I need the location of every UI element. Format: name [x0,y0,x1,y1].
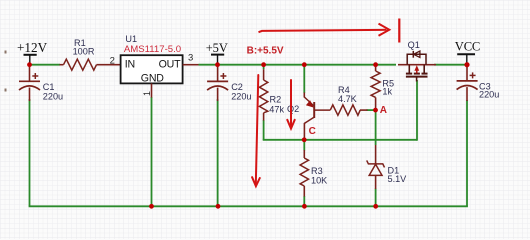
capacitor C2 [207,65,251,102]
svg-text:R2: R2 [270,95,282,105]
pin 1 (GND) [142,83,152,97]
transistor Q1 (P-MOSFET) [398,40,436,82]
pin 3 [183,52,199,64]
svg-text:Q1: Q1 [408,40,420,50]
svg-text:1k: 1k [382,86,392,96]
resistor R1 [60,38,121,70]
power port +5V [206,41,228,64]
annotation arrow down mid (red) [287,80,294,129]
svg-text:U1: U1 [125,34,137,44]
diode D1 (zener) [367,145,407,189]
svg-text:47k: 47k [269,104,284,114]
svg-text:OUT: OUT [159,59,181,71]
wire: R3 top [303,140,305,151]
svg-text:1: 1 [142,91,152,96]
svg-text:C2: C2 [231,82,243,92]
svg-text:220u: 220u [231,91,251,101]
svg-text:B:+5.5V: B:+5.5V [247,45,284,56]
capacitor C3 [457,65,500,101]
svg-text:C: C [309,126,316,137]
svg-text:C1: C1 [43,82,55,92]
wire: Q1 to VCC [434,64,467,66]
svg-text:+12V: +12V [17,40,48,55]
wire: U1 GND down [151,97,153,206]
svg-text:IN: IN [125,59,135,71]
svg-text:A: A [380,105,387,116]
svg-text:GND: GND [141,73,164,85]
svg-text:VCC: VCC [455,40,480,54]
wire: U1 out to Q1 [199,64,397,66]
wire: C node horizontal [263,139,417,141]
power port VCC [455,40,480,65]
wire: C3 down to rail [466,100,468,206]
svg-text:100R: 100R [73,47,95,57]
svg-text:+5V: +5V [206,41,228,55]
resistor R2 [259,65,284,121]
wire: main +12V rail to R1 [30,64,61,66]
wire: C node up to Q1 gate [416,80,418,141]
svg-text:5.1V: 5.1V [388,174,408,184]
wire: R2 bottom to C node wire [263,120,265,140]
wire: D1 bottom to rail [375,189,377,207]
svg-text:4.7K: 4.7K [338,94,357,104]
resistor R5 [371,65,394,110]
wire: ground rail bottom [29,205,468,207]
svg-text:AMS1117-5.0: AMS1117-5.0 [124,44,181,55]
wire: R4 right to node A [367,109,376,111]
annotation bar top right (red) [398,19,400,43]
op-amp U1 regulator box [121,34,183,85]
wire: Q2 emitter from rail [303,65,305,93]
wire: C2 down [217,99,219,206]
transistor Q2 (PNP) [287,93,330,141]
annotation arrow top (red) [259,24,390,36]
resistor R3 [300,150,327,197]
wire: C1 down to ground rail [29,99,31,206]
svg-text:220u: 220u [43,92,63,102]
svg-text:3: 3 [188,52,193,63]
svg-text:220u: 220u [479,90,499,100]
wire: node A down to D1 [375,110,377,145]
svg-text:2: 2 [110,55,115,66]
edge artifact marks [5,51,7,54]
resistor R4 [330,85,367,115]
wire: R3 bottom [303,196,305,206]
svg-text:Q2: Q2 [287,104,299,114]
power port +12V [17,40,48,64]
annotation arrow down left (red) [252,75,260,186]
svg-text:10K: 10K [311,175,327,185]
capacitor C1 [19,65,63,102]
